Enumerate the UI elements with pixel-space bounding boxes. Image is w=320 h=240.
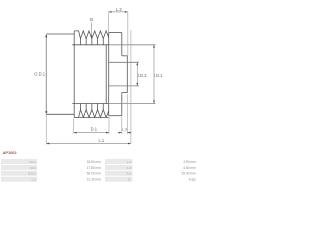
arrowhead L.2 left: [109, 11, 112, 13]
arrowhead D.1 left: [74, 132, 77, 134]
collar front face: [126, 56, 128, 93]
svg-text:L.1: L.1: [32, 178, 37, 182]
svg-text:4.90 mm: 4.90 mm: [183, 160, 196, 164]
extension line L.3 right: [126, 94, 128, 134]
table row 3 label cell right: [105, 171, 133, 176]
svg-text:AP1002: AP1002: [3, 150, 18, 155]
leader G: [90, 22, 92, 37]
svg-text:L.2: L.2: [127, 160, 132, 164]
svg-text:O.D.1: O.D.1: [34, 71, 45, 76]
bore line upper I.D.2: [109, 61, 139, 63]
rim inner line bottom: [72, 103, 108, 105]
extension line L.1 right: [130, 30, 132, 144]
extension line L.1 left: [45, 115, 47, 145]
arrowhead L.2 right: [125, 11, 128, 13]
collar top edge: [122, 55, 128, 57]
svg-text:I.D.1: I.D.1: [29, 160, 36, 164]
table row 4 label cell left: [1, 177, 37, 182]
svg-text:L.1: L.1: [98, 138, 104, 143]
groove valley ticks top: [80, 39, 103, 45]
rim inner step vertical: [105, 45, 107, 104]
arrowhead L.3 left: [119, 132, 122, 134]
dimension L.3 outside arrow lines: [118, 132, 132, 134]
arrowhead I.D.2 top: [136, 62, 138, 65]
arrowhead L.3 right: [127, 132, 130, 134]
rim inner line top: [72, 44, 108, 46]
svg-text:D.1: D.1: [127, 172, 132, 176]
svg-text:L.3: L.3: [127, 166, 132, 170]
groove zigzag top: [74, 31, 109, 39]
table row 1 label cell right: [105, 159, 133, 164]
pulley left face / O.D.1 edge line: [45, 34, 47, 114]
svg-text:4.80 mm: 4.80 mm: [183, 166, 196, 170]
arrowhead L.1 left: [46, 143, 49, 145]
arrowhead O.D.1 bottom: [45, 111, 47, 114]
table row 3 label cell left: [1, 171, 37, 176]
arrowhead G leader: [91, 35, 93, 38]
dimension O.D.1 arrows line: [45, 34, 47, 114]
extension line L.3 left: [121, 117, 123, 134]
nose top edge: [109, 32, 122, 34]
rim-hub boundary vertical: [73, 31, 75, 118]
extension line L.2 left: [108, 12, 110, 32]
svg-text:I.D.2: I.D.2: [138, 73, 147, 78]
svg-text:16.80 mm: 16.80 mm: [87, 160, 102, 164]
table row 1 label cell left: [1, 159, 37, 164]
arrowhead D.1 right: [106, 132, 109, 134]
extension line L.2 right: [127, 12, 129, 56]
dimension L.2 line: [109, 11, 128, 13]
svg-text:I.D.1: I.D.1: [154, 73, 163, 78]
svg-text:17.80 mm: 17.80 mm: [87, 166, 102, 170]
table row 4 label cell right: [105, 177, 133, 182]
pulley left cylinder section bottom edge: [46, 113, 74, 115]
svg-text:G.: G.: [128, 178, 131, 182]
svg-text:D.1: D.1: [91, 127, 98, 132]
table row 2 label cell left: [1, 165, 37, 170]
arrowhead I.D.2 bottom: [136, 83, 138, 86]
pulley left cylinder section top edge: [46, 33, 74, 35]
table row 2 label cell right: [105, 165, 133, 170]
extension line D.1 right: [108, 117, 110, 134]
rim line extension bottom to I.D.1: [109, 103, 156, 105]
arrowhead I.D.1 top: [153, 45, 155, 48]
groove valley ticks bottom: [80, 104, 103, 110]
arrowhead L.1 right: [128, 143, 131, 145]
nose left edge vertical: [108, 33, 110, 116]
svg-text:O.D.1: O.D.1: [28, 172, 36, 176]
bore line lower I.D.2: [109, 85, 139, 87]
collar bottom edge: [122, 92, 128, 94]
arrowhead O.D.1 top: [45, 34, 47, 37]
svg-text:56.00 mm: 56.00 mm: [87, 172, 102, 176]
svg-text:G: G: [90, 17, 94, 23]
rim line extension top to I.D.1: [109, 44, 156, 46]
nose front face bottom: [121, 93, 123, 116]
arrowhead I.D.1 bottom: [153, 101, 155, 104]
nose front face top: [121, 33, 123, 56]
svg-text:31.30 mm: 31.30 mm: [87, 178, 102, 182]
svg-text:L.3: L.3: [122, 127, 127, 131]
svg-text:I.D.2: I.D.2: [29, 166, 36, 170]
svg-text:25.40 mm: 25.40 mm: [182, 172, 197, 176]
groove outer surface line bottom: [74, 116, 109, 118]
groove zigzag bottom: [74, 110, 109, 118]
svg-text:L.2: L.2: [116, 7, 123, 12]
dimension L.1 line: [46, 143, 131, 145]
nose bottom edge: [109, 115, 122, 117]
extension line D.1 left: [73, 119, 75, 135]
dimension I.D.1 line: [153, 45, 155, 104]
dimension I.D.2 line: [136, 62, 138, 86]
dimension D.1 line: [74, 132, 109, 134]
svg-text:6 qty: 6 qty: [189, 178, 196, 182]
